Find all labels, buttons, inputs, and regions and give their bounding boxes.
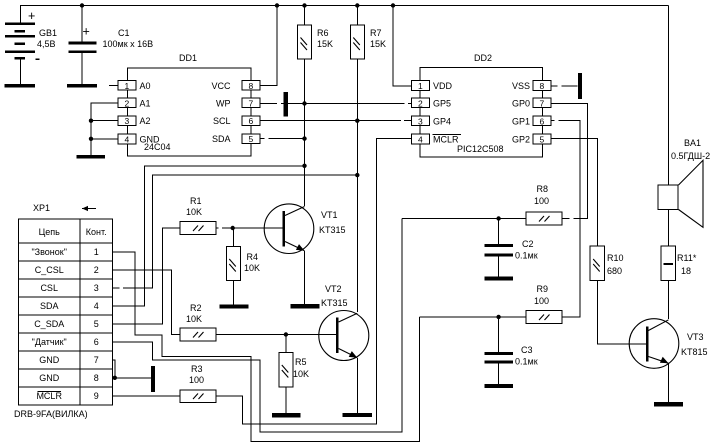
wire VT1 emitter to ground xyxy=(304,251,306,304)
capacitor C3 0.1мк xyxy=(485,317,538,384)
svg-text:GP2: GP2 xyxy=(512,135,530,145)
wire VT2 emitter to ground xyxy=(356,358,358,413)
ground (C3) xyxy=(485,384,513,388)
svg-text:4,5В: 4,5В xyxy=(37,39,56,49)
svg-text:8: 8 xyxy=(540,81,545,91)
node junction R2-R5 xyxy=(284,332,288,336)
svg-text:GP5: GP5 xyxy=(433,99,451,109)
DD1 pin 6 SCL xyxy=(213,116,260,126)
node junction C2 xyxy=(496,216,500,220)
svg-text:KT315: KT315 xyxy=(319,225,346,235)
ground (R5) xyxy=(272,413,301,417)
op-amp DD1 24C04 body xyxy=(128,53,252,156)
wire speaker to R11 xyxy=(668,210,670,247)
svg-text:6: 6 xyxy=(94,337,99,347)
svg-text:DRB-9FA(ВИЛКА): DRB-9FA(ВИЛКА) xyxy=(14,409,88,419)
svg-text:15K: 15K xyxy=(317,39,333,49)
node junction C3 xyxy=(496,315,500,319)
ground (VSS bar) xyxy=(578,73,582,99)
node junction pin3 xyxy=(89,119,93,123)
resistor R7 15K xyxy=(350,6,386,60)
connector XP1 table xyxy=(14,203,113,419)
wire XP1 pin8 GND to bar xyxy=(113,377,151,379)
svg-text:6: 6 xyxy=(540,116,545,126)
wire R7 bottom to VT2 collector xyxy=(356,59,358,312)
resistor R5 10K xyxy=(279,335,309,414)
node junction R7 top xyxy=(355,3,359,7)
svg-text:6: 6 xyxy=(249,116,254,126)
svg-text:8: 8 xyxy=(94,373,99,383)
wire DD1 VCC feed xyxy=(260,6,277,86)
svg-text:VT2: VT2 xyxy=(325,284,342,294)
wire A0 stub xyxy=(109,85,118,87)
svg-text:R4: R4 xyxy=(247,252,259,262)
ground (R4) xyxy=(219,304,248,308)
wire DD1 pins 2-4 to ground xyxy=(91,103,118,155)
svg-text:680: 680 xyxy=(607,266,622,276)
svg-text:A0: A0 xyxy=(140,81,151,91)
DD2 pin 2 GP5 xyxy=(412,98,452,109)
svg-text:4: 4 xyxy=(418,135,423,145)
resistor R1 10K xyxy=(180,196,216,234)
svg-text:3: 3 xyxy=(125,116,130,126)
svg-text:GND: GND xyxy=(39,373,60,383)
svg-text:Цепь: Цепь xyxy=(39,227,61,237)
wire R9 line west xyxy=(419,316,526,318)
ground (XP1 bar) xyxy=(151,366,155,392)
resistor R4 10K xyxy=(226,228,260,304)
svg-text:VT1: VT1 xyxy=(321,210,338,220)
svg-text:GP1: GP1 xyxy=(512,116,530,126)
node junction R6 top xyxy=(302,3,306,7)
svg-text:KT815: KT815 xyxy=(681,347,708,357)
wire XP1 pin4 SDA up to SDA net xyxy=(113,166,305,306)
DD2 pin 5 GP2 xyxy=(512,134,551,145)
battery GB1 xyxy=(5,6,57,85)
wire XP1 pin6 Датчик route to R8 line xyxy=(113,219,403,433)
wire XP1 pin9 MCLR to R3 xyxy=(113,395,180,397)
node junction SDA line to R6 line xyxy=(302,164,306,168)
svg-text:A1: A1 xyxy=(140,99,151,109)
svg-text:7: 7 xyxy=(540,99,545,109)
svg-text:WP: WP xyxy=(216,99,231,109)
svg-text:18: 18 xyxy=(681,266,691,276)
node junction SDA pin xyxy=(302,136,306,140)
wire top power rail xyxy=(20,5,669,7)
DD2 pin 7 GP0 xyxy=(512,98,551,109)
svg-text:GND: GND xyxy=(39,355,60,365)
wire top rail to speaker BA1 xyxy=(668,6,670,186)
svg-text:2: 2 xyxy=(94,265,99,275)
svg-text:KT315: KT315 xyxy=(321,298,348,308)
DD2 pin 3 GP4 xyxy=(412,116,452,127)
svg-text:Конт.: Конт. xyxy=(86,227,107,237)
svg-text:C_SDA: C_SDA xyxy=(34,319,64,329)
svg-text:"Звонок": "Звонок" xyxy=(31,247,66,257)
svg-text:R9: R9 xyxy=(537,284,549,294)
wire VT3 emitter to ground xyxy=(668,363,670,402)
svg-text:4: 4 xyxy=(94,301,99,311)
wire R11 to VT3 collector xyxy=(668,281,670,320)
svg-text:VCC: VCC xyxy=(211,81,231,91)
wire R2 to VT2 base xyxy=(216,334,337,336)
svg-text:VDD: VDD xyxy=(433,81,453,91)
DD1 pin 8 VCC xyxy=(211,81,260,91)
wire GP0 to R8 xyxy=(551,104,587,219)
node junction DD1 VCC xyxy=(275,3,279,7)
node junction R1-R4 xyxy=(231,226,235,230)
svg-text:R11*: R11* xyxy=(677,253,697,263)
svg-text:MCLR: MCLR xyxy=(36,391,62,401)
svg-text:PIC12C508: PIC12C508 xyxy=(457,144,504,154)
ground (VT3) xyxy=(654,402,683,406)
svg-text:R2: R2 xyxy=(190,303,202,313)
svg-text:GP0: GP0 xyxy=(512,99,530,109)
svg-text:3: 3 xyxy=(94,283,99,293)
svg-text:5: 5 xyxy=(249,134,254,144)
node junction DD2 VDD xyxy=(391,3,395,7)
wire DD2 VDD feed xyxy=(393,6,412,87)
svg-text:R10: R10 xyxy=(607,253,624,263)
svg-text:C2: C2 xyxy=(522,239,534,249)
transistor VT3 KT815 xyxy=(629,319,707,369)
DD1 pin 2 A1 xyxy=(118,98,151,108)
ground (battery) xyxy=(5,84,36,88)
ground (WP bar) xyxy=(284,92,288,117)
svg-text:10K: 10K xyxy=(244,263,260,273)
svg-text:0.1мк: 0.1мк xyxy=(515,357,538,367)
svg-text:100: 100 xyxy=(189,375,204,385)
DD1 pin 1 A0 xyxy=(118,81,151,91)
svg-text:VT3: VT3 xyxy=(687,332,704,342)
DD1 pin 5 SDA xyxy=(212,134,260,144)
DD2 pin 8 VSS xyxy=(512,81,551,92)
wire XP1 pin1 Звонок route xyxy=(113,252,420,442)
svg-text:C1: C1 xyxy=(118,28,130,38)
wire XP1 pin7 GND xyxy=(113,360,115,378)
svg-text:10K: 10K xyxy=(186,207,202,217)
svg-text:SDA: SDA xyxy=(40,301,59,311)
svg-text:7: 7 xyxy=(249,99,254,109)
wire R3 to DD2 MCLR pin xyxy=(216,139,412,425)
svg-text:SDA: SDA xyxy=(212,134,231,144)
svg-text:100: 100 xyxy=(534,196,549,206)
svg-text:R1: R1 xyxy=(190,196,202,206)
svg-text:1: 1 xyxy=(125,81,130,91)
svg-text:CSL: CSL xyxy=(40,283,58,293)
resistor R9 100 xyxy=(526,284,562,323)
svg-text:GP4: GP4 xyxy=(433,116,451,126)
ground (VT1) xyxy=(291,304,320,308)
svg-text:8: 8 xyxy=(249,81,254,91)
wire XP1 pin5 C_SDA to R1 xyxy=(113,228,180,324)
wire R8 line west xyxy=(402,218,526,220)
DD2 pin 1 VDD xyxy=(412,81,453,92)
svg-text:100: 100 xyxy=(534,296,549,306)
node junction C1 top xyxy=(80,3,84,7)
capacitor C2 0.1мк xyxy=(485,219,538,277)
svg-text:XP1: XP1 xyxy=(33,203,50,213)
wire gap artifacts xyxy=(120,85,574,289)
svg-text:1: 1 xyxy=(418,81,423,91)
ground (C1) xyxy=(67,84,97,88)
svg-text:GND: GND xyxy=(140,135,161,145)
node junction SDA net GP5 line xyxy=(302,101,306,105)
svg-text:+: + xyxy=(28,9,35,23)
node junction pin4 xyxy=(89,137,93,141)
ground (C2) xyxy=(485,277,513,281)
svg-text:0.1мк: 0.1мк xyxy=(515,251,538,261)
svg-text:R5: R5 xyxy=(295,357,307,367)
svg-text:10K: 10K xyxy=(186,314,202,324)
svg-text:DD2: DD2 xyxy=(474,53,492,63)
wire R6 bottom to VT1 collector xyxy=(304,59,306,206)
wire SCL to GP4 xyxy=(260,120,412,122)
svg-text:2: 2 xyxy=(125,99,130,109)
svg-text:DD1: DD1 xyxy=(179,53,197,63)
svg-text:0.5ГДШ-2: 0.5ГДШ-2 xyxy=(671,151,710,161)
wire R1 to VT1 base xyxy=(216,227,283,229)
ground (VT2) xyxy=(343,413,373,417)
ground (DD1 pins) xyxy=(77,155,105,159)
svg-text:2: 2 xyxy=(418,99,423,109)
wire GP1 to R9 xyxy=(551,121,580,317)
svg-text:"Датчик": "Датчик" xyxy=(32,337,67,347)
svg-text:15K: 15K xyxy=(370,39,386,49)
transistor VT1 KT315 xyxy=(264,204,345,254)
DD1 pin 3 A2 xyxy=(118,116,151,126)
DD1 pin 7 WP xyxy=(216,98,260,108)
svg-text:7: 7 xyxy=(94,355,99,365)
DD2 pin 6 GP1 xyxy=(512,116,551,127)
node junction CSL to R7 line xyxy=(355,173,359,177)
resistor R11* 18 xyxy=(661,246,697,280)
svg-text:C3: C3 xyxy=(521,345,533,355)
transistor VT2 KT315 xyxy=(319,284,369,361)
svg-text:4: 4 xyxy=(125,135,130,145)
resistor R10 680 xyxy=(590,246,623,280)
svg-text:BA1: BA1 xyxy=(684,138,701,148)
svg-text:R3: R3 xyxy=(191,364,203,374)
DD2 pin 4 MCLR xyxy=(412,134,462,145)
svg-text:10K: 10K xyxy=(293,369,309,379)
wire VSS to ground bar xyxy=(551,85,578,87)
svg-text:100мк x 16В: 100мк x 16В xyxy=(103,39,154,49)
svg-text:MCLR: MCLR xyxy=(433,135,459,145)
svg-text:C_CSL: C_CSL xyxy=(35,265,64,275)
op-amp DD2 PIC12C508 body xyxy=(420,53,543,157)
svg-text:+: + xyxy=(83,25,90,39)
svg-text:VSS: VSS xyxy=(512,81,530,91)
wire R10 to VT3 base xyxy=(597,281,646,344)
svg-text:1: 1 xyxy=(94,247,99,257)
svg-text:9: 9 xyxy=(94,391,99,401)
wire GP2 to R10 xyxy=(551,139,597,247)
svg-text:5: 5 xyxy=(94,319,99,329)
svg-text:R8: R8 xyxy=(537,184,549,194)
svg-text:R6: R6 xyxy=(317,28,329,38)
svg-text:SCL: SCL xyxy=(213,116,231,126)
node junction SCL net R7 xyxy=(355,119,359,123)
resistor R8 100 xyxy=(526,184,562,225)
resistor R2 10K xyxy=(180,303,216,341)
wire XP1 pin2 C_CSL to R2 xyxy=(113,270,180,335)
wire XP1 pin3 CSL up to SCL net xyxy=(113,175,358,288)
svg-text:5: 5 xyxy=(540,135,545,145)
svg-text:GB1: GB1 xyxy=(39,28,57,38)
speaker BA1 0.5ГДШ-2 xyxy=(658,138,710,227)
wire SDA pin to R6 line xyxy=(260,138,305,140)
svg-text:3: 3 xyxy=(418,116,423,126)
svg-text:A2: A2 xyxy=(140,116,151,126)
resistor R6 15K xyxy=(298,6,334,60)
svg-text:R7: R7 xyxy=(370,28,382,38)
wire WP to ground bar and on to GP5 xyxy=(260,103,412,105)
capacitor C1 xyxy=(69,6,154,85)
node junction pins 7-8 xyxy=(113,376,117,380)
resistor R3 100 xyxy=(180,364,216,402)
DD1 pin 4 GND xyxy=(118,134,160,145)
